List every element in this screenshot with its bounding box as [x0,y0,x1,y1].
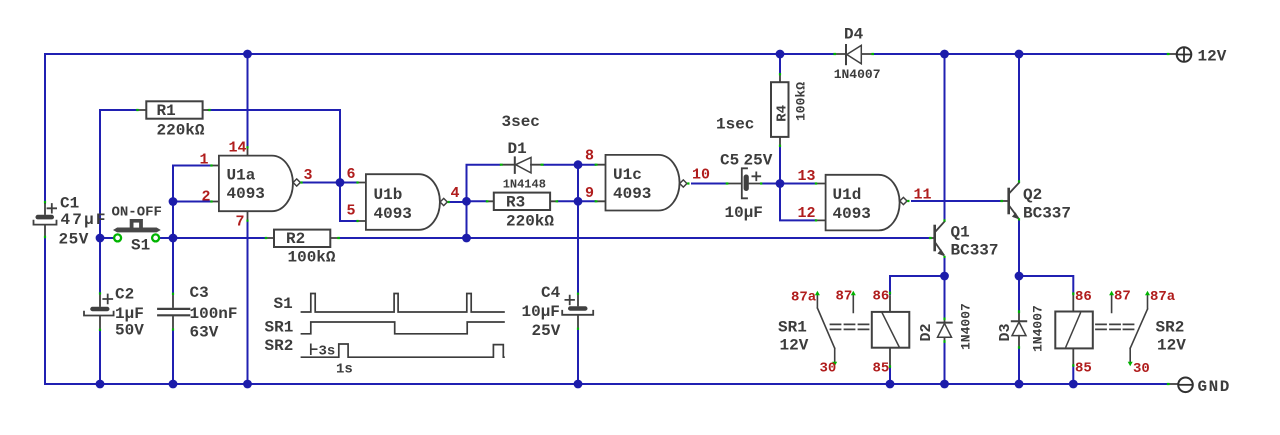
wire U1b pin4 output [451,201,467,203]
pin label 85 RL2 [1075,361,1092,377]
svg-text:R4: R4 [775,105,791,122]
capacitor C3 [158,295,189,329]
pin number 5 [347,203,356,220]
pin number 11 [914,187,932,204]
svg-text:U1c: U1c [613,166,642,184]
svg-text:1µF: 1µF [115,305,144,323]
resistor R3 [488,193,556,210]
label R4 value rotated [775,82,809,122]
label waveform SR2 [265,337,294,355]
svg-text:4093: 4093 [227,185,265,203]
label D4 name [834,25,881,82]
svg-text:63V: 63V [190,324,219,342]
diode D2 [937,320,951,341]
relay RL2 coil [1055,295,1093,365]
wire R3 right [558,200,578,202]
pin label 86 RL1 [873,289,890,305]
svg-text:Q1: Q1 [951,224,970,242]
svg-text:12V: 12V [780,337,809,355]
wire S1 left [100,237,114,239]
svg-text:86: 86 [1075,289,1092,305]
label C3 value [190,284,238,342]
pin number 6 [347,166,356,183]
wire Q2 emitter down through D3 [1018,221,1020,385]
waveform SR2 trace [301,344,505,357]
svg-text:4: 4 [451,185,460,202]
wire C5 plus side [762,183,780,185]
svg-text:3sec: 3sec [502,113,540,131]
label D3 name rotated [997,305,1046,352]
label R2 value [286,230,336,267]
label C4 value [522,284,561,340]
svg-text:85: 85 [1075,361,1092,377]
svg-text:1N4148: 1N4148 [503,178,546,192]
svg-text:5: 5 [347,203,356,220]
ground symbol GND [1170,378,1193,393]
svg-text:10: 10 [692,167,710,184]
pin label 87 SR1 [836,289,853,305]
svg-text:1sec: 1sec [716,116,754,134]
wire R4 top and bottom leads [779,54,781,184]
svg-text:BC337: BC337 [1023,205,1071,223]
label GND supply [1198,378,1231,396]
wire U1a pin7 [247,221,249,385]
label waveform SR1 [265,318,294,336]
pin label 30 SR1 [820,361,837,377]
svg-text:14: 14 [229,140,247,157]
pin number 9 [585,185,594,202]
switch SR2 contacts [1112,296,1148,362]
green connection ticks [45,54,1170,384]
label D2 name rotated [918,303,974,350]
switch SR1 contacts [817,296,853,362]
label S1 switch [131,237,150,255]
svg-text:U1a: U1a [227,167,256,185]
svg-text:BC337: BC337 [951,242,999,260]
svg-text:9: 9 [585,185,594,202]
svg-text:7: 7 [236,214,245,231]
svg-text:4093: 4093 [833,205,871,223]
label C5 value [720,152,773,223]
svg-text:ON-OFF: ON-OFF [112,205,162,221]
pin label 85 RL1 [873,361,890,377]
svg-text:1N4007: 1N4007 [1031,305,1046,352]
pin number 1 [200,152,209,169]
svg-text:87: 87 [836,289,853,305]
diode D3 [1012,313,1026,347]
waveform 3s marker tick [311,344,318,356]
label Q2 name [1023,186,1071,223]
relay RL2 mechanical link === [1096,324,1134,329]
resistor R2 [267,230,337,247]
pin number 13 [798,168,816,185]
svg-text:12: 12 [798,205,816,222]
op-amp U1c nand gate body [597,155,687,211]
switch SR2 terminal arrows [1109,291,1150,367]
resistor R1 [138,101,209,118]
label C1 value [59,195,108,249]
pin label 87 SR2 [1114,289,1131,305]
svg-text:10µF: 10µF [522,303,560,321]
svg-text:100kΩ: 100kΩ [288,249,336,267]
wire relay RL2 coil branch [1019,276,1073,384]
svg-text:12V: 12V [1157,337,1186,355]
svg-text:4093: 4093 [613,185,651,203]
svg-text:R3: R3 [506,194,525,212]
svg-text:6: 6 [347,166,356,183]
label 1sec [716,116,754,134]
svg-text:D1: D1 [508,140,527,158]
label 3sec [502,113,540,131]
svg-text:25V: 25V [59,231,89,249]
svg-text:11: 11 [914,187,932,204]
pin number 10 [692,167,710,184]
svg-text:1: 1 [200,152,209,169]
wire R1 left to C2 column x=100 [100,110,137,384]
wire U1c pin8 [578,164,595,166]
label SR2 name [1156,319,1187,355]
svg-text:D3: D3 [997,323,1014,341]
capacitor C1 [34,203,57,236]
svg-text:220kΩ: 220kΩ [506,213,554,231]
svg-text:100nF: 100nF [190,305,238,323]
wire U1a pin1 to C3 column x=173 [173,166,210,385]
pin label 30 SR2 [1133,361,1150,377]
wire U1a pin2 [173,201,210,203]
transistor Q2 [1001,183,1019,220]
switch SR1 terminal arrows [815,291,856,367]
wire U1c pin9 [578,200,595,202]
wire Q2 collector from 12V [1018,54,1020,181]
wire R1 right down to U1a output node [209,110,341,183]
svg-text:4093: 4093 [374,205,412,223]
svg-text:R1: R1 [157,102,176,120]
waveform SR1 trace [301,322,505,334]
wire R3 left [467,200,487,202]
wire left rail x=45 [44,54,46,384]
diode D1 [503,157,542,173]
pin label 86 RL2 [1075,289,1092,305]
svg-text:100kΩ: 100kΩ [794,82,809,121]
wire node-S1 to R2 [173,237,265,239]
capacitor C2 [84,294,114,329]
wire U1d pin11 output to Q2 base [912,200,1001,202]
label Q1 name [951,224,999,260]
power symbol 12V [1170,47,1192,62]
wire Q1 emitter down through D2 [944,258,946,385]
capacitor C5 [728,168,760,198]
svg-text:C2: C2 [115,286,134,304]
label U1b [374,186,412,223]
label C2 value [115,286,144,340]
svg-text:SR1: SR1 [778,319,807,337]
waveform S1 trace [301,294,505,313]
wire Q1 collector from 12V [944,54,946,220]
svg-text:3s: 3s [319,344,336,360]
wire U1a pin3 output [301,182,341,184]
svg-text:50V: 50V [115,322,144,340]
svg-text:1s: 1s [336,362,353,378]
svg-text:10µF: 10µF [725,204,763,222]
label waveform S1 [274,295,293,313]
transistor Q1 [930,222,945,257]
wire x=578 column through C4 [577,165,579,384]
label 3s delay [319,344,336,360]
label 1s pulse [336,362,353,378]
label R3 value [506,194,554,231]
pin number 4 [451,185,460,202]
wire GND bottom rail [45,383,1166,385]
wire U1d pin12 [780,184,815,221]
pushbutton S1 [113,219,161,241]
wire U1a pin14 [247,54,249,147]
svg-text:C3: C3 [190,284,209,302]
svg-text:2: 2 [202,189,211,206]
svg-text:C5: C5 [720,152,739,170]
wire R2 to Q1 base bus y=238 [340,237,930,239]
svg-text:30: 30 [1133,361,1150,377]
node junction dots [96,50,1078,389]
svg-text:SR2: SR2 [1156,319,1185,337]
svg-text:8: 8 [585,148,594,165]
relay RL1 mechanical link === [831,324,869,329]
relay RL1 coil [872,296,910,365]
label ON-OFF [112,205,162,221]
op-amp U1d nand gate body [817,175,907,231]
pin label 87a SR2 [1150,289,1176,305]
svg-text:Q2: Q2 [1023,186,1042,204]
svg-text:C4: C4 [541,284,561,302]
svg-text:U1d: U1d [833,186,862,204]
op-amp U1a nand gate body [213,148,301,220]
svg-text:1N4007: 1N4007 [834,67,881,82]
svg-text:SR1: SR1 [265,318,294,336]
svg-text:D2: D2 [918,323,935,341]
wire U1d pin13 [780,183,815,185]
svg-text:87a: 87a [791,290,817,306]
label SR1 name [778,319,809,355]
svg-text:12V: 12V [1198,48,1227,66]
svg-text:25V: 25V [532,322,561,340]
pin number 2 [202,189,211,206]
label 12V supply [1198,48,1227,66]
wire S1 right [160,237,174,239]
svg-text:30: 30 [820,361,837,377]
label U1d [833,186,871,223]
pin number 7 [236,214,245,231]
svg-text:GND: GND [1198,378,1231,396]
svg-text:13: 13 [798,168,816,185]
wire 12V top rail [45,53,1166,55]
svg-text:85: 85 [873,361,890,377]
op-amp U1b nand gate body [359,174,448,230]
svg-text:SR2: SR2 [265,337,294,355]
svg-text:25V: 25V [744,152,773,170]
capacitor C4 [562,294,593,327]
label R1 value [157,102,205,140]
wire U1b pins 6 and 5 [340,183,357,222]
pin number 3 [304,167,313,184]
svg-text:47µF: 47µF [61,211,108,229]
svg-text:86: 86 [873,289,890,305]
svg-text:U1b: U1b [374,186,403,204]
wire U1c pin10 output to C5 [692,183,726,185]
svg-text:1N4007: 1N4007 [959,303,974,350]
resistor R4 [771,75,789,145]
wire pin4 node up to D1 [467,165,500,238]
svg-text:C1: C1 [60,195,79,213]
wire relay RL1 coil branch [890,276,945,384]
pin number 8 [585,148,594,165]
wire D1 cathode to node x=578 [544,164,579,166]
svg-text:S1: S1 [131,237,150,255]
svg-text:D4: D4 [844,25,864,43]
pin number 12 [798,205,816,222]
svg-text:3: 3 [304,167,313,184]
svg-text:S1: S1 [274,295,293,313]
label U1a [227,167,265,203]
diode D4 [836,45,871,64]
svg-text:220kΩ: 220kΩ [157,122,205,140]
svg-text:87: 87 [1114,289,1131,305]
svg-text:87a: 87a [1150,289,1176,305]
pin label 87a SR1 [791,290,817,306]
label D1 name [503,140,546,192]
svg-text:R2: R2 [286,230,305,248]
label U1c [613,166,651,203]
pin number 14 [229,140,247,157]
